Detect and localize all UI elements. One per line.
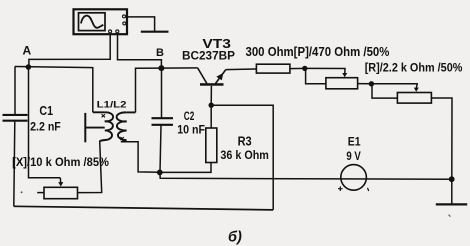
wire emitter to 300 Ohm resistor	[226, 68, 257, 71]
wire bottom rail	[14, 206, 273, 210]
wire node down to pot R left terminal	[372, 84, 397, 98]
svg-text:C2: C2	[184, 109, 195, 123]
capacitor C1	[3, 115, 28, 121]
wire resistor to node	[290, 67, 305, 69]
svg-text:б): б)	[228, 229, 242, 245]
node after 300 Ohm	[302, 66, 307, 71]
L1 tap bar	[84, 113, 86, 142]
wire R3 top to base junction	[210, 105, 212, 128]
ground (oscilloscope)	[141, 31, 169, 33]
L1 winding polarity mark	[102, 114, 105, 117]
wire node down to ground	[451, 179, 453, 203]
svg-text:R3: R3	[238, 135, 252, 149]
wire node B down to C2	[161, 68, 163, 118]
wire pot X right terminal up to L1 bottom	[78, 141, 102, 193]
svg-text:36 k Ohm: 36 k Ohm	[220, 150, 269, 162]
wire feedback from base junction right and down to bottom rail	[211, 105, 273, 210]
battery plus mark	[338, 186, 343, 191]
node battery right	[449, 176, 455, 182]
wire top-left rail from C1 corner through A to L1 drop	[15, 67, 93, 113]
wire scope left probe to node A	[29, 33, 110, 67]
wire C2 bottom to junction	[160, 126, 161, 173]
potentiometer P 470 Ohm	[326, 78, 358, 89]
inductor L2	[117, 112, 136, 141]
node A	[26, 64, 32, 70]
svg-text:[X]/10 k Ohm /85%: [X]/10 k Ohm /85%	[12, 157, 109, 169]
wire L2 bottom to junction	[121, 142, 160, 173]
oscilloscope P1	[74, 9, 128, 34]
potentiometer R 2.2 k Ohm	[397, 93, 431, 104]
L2 winding polarity mark	[121, 137, 124, 140]
svg-text:L1/L2: L1/L2	[97, 100, 127, 111]
svg-text:300 Ohm[P]/470 Ohm /50%: 300 Ohm[P]/470 Ohm /50%	[246, 45, 390, 59]
wire C1 bottom to bottom rail corner	[14, 122, 15, 207]
wire junction down and right to battery E1	[160, 173, 452, 180]
capacitor C2	[152, 118, 174, 125]
wire scope right probe to node B	[118, 33, 162, 68]
wire node down to pot P left terminal	[306, 68, 326, 83]
inductor L1	[85, 112, 113, 141]
potentiometer P wiper wire and arrow	[305, 68, 345, 73]
node after pot P	[369, 81, 374, 86]
resistor R3 36 k Ohm	[206, 128, 217, 163]
svg-text:[R]/2.2 k Ohm /50%: [R]/2.2 k Ohm /50%	[365, 60, 463, 74]
wire C1 top lead	[14, 67, 16, 115]
svg-text:9 V: 9 V	[346, 149, 360, 163]
wire pot P to node	[358, 83, 372, 85]
svg-text:A: A	[23, 44, 32, 58]
svg-text:BC237BP: BC237BP	[182, 48, 235, 62]
scan speck	[21, 191, 23, 193]
potentiometer X 10 k Ohm /85%	[44, 187, 78, 198]
svg-text:10 nF: 10 nF	[177, 124, 205, 136]
potentiometer X wiper arrow	[59, 178, 61, 183]
junction node (C2/L2/R3/E1)	[157, 170, 163, 176]
potentiometer R wiper wire and arrow	[371, 84, 417, 88]
wire junction to R3 bottom	[160, 162, 211, 172]
svg-text:C1: C1	[39, 104, 53, 118]
svg-text:2.2 nF: 2.2 nF	[30, 122, 61, 134]
node B	[158, 65, 164, 71]
battery E1 9 V	[341, 165, 367, 191]
wire node B rail right to transistor collector	[161, 67, 197, 69]
svg-text:B: B	[156, 47, 164, 59]
wire node A down to pot X wiper	[29, 67, 61, 178]
transistor VT3 BC237BP	[198, 68, 226, 105]
resistor 300 Ohm [P]	[256, 64, 290, 73]
svg-text:E1: E1	[348, 135, 361, 149]
wire scope output to ground	[126, 17, 155, 32]
wire pot R right terminal down to battery node	[431, 98, 452, 179]
ground	[436, 203, 467, 205]
wire node B rail left and down to L2 top	[136, 68, 162, 112]
battery minus mark	[368, 188, 369, 191]
node base junction	[209, 103, 214, 108]
